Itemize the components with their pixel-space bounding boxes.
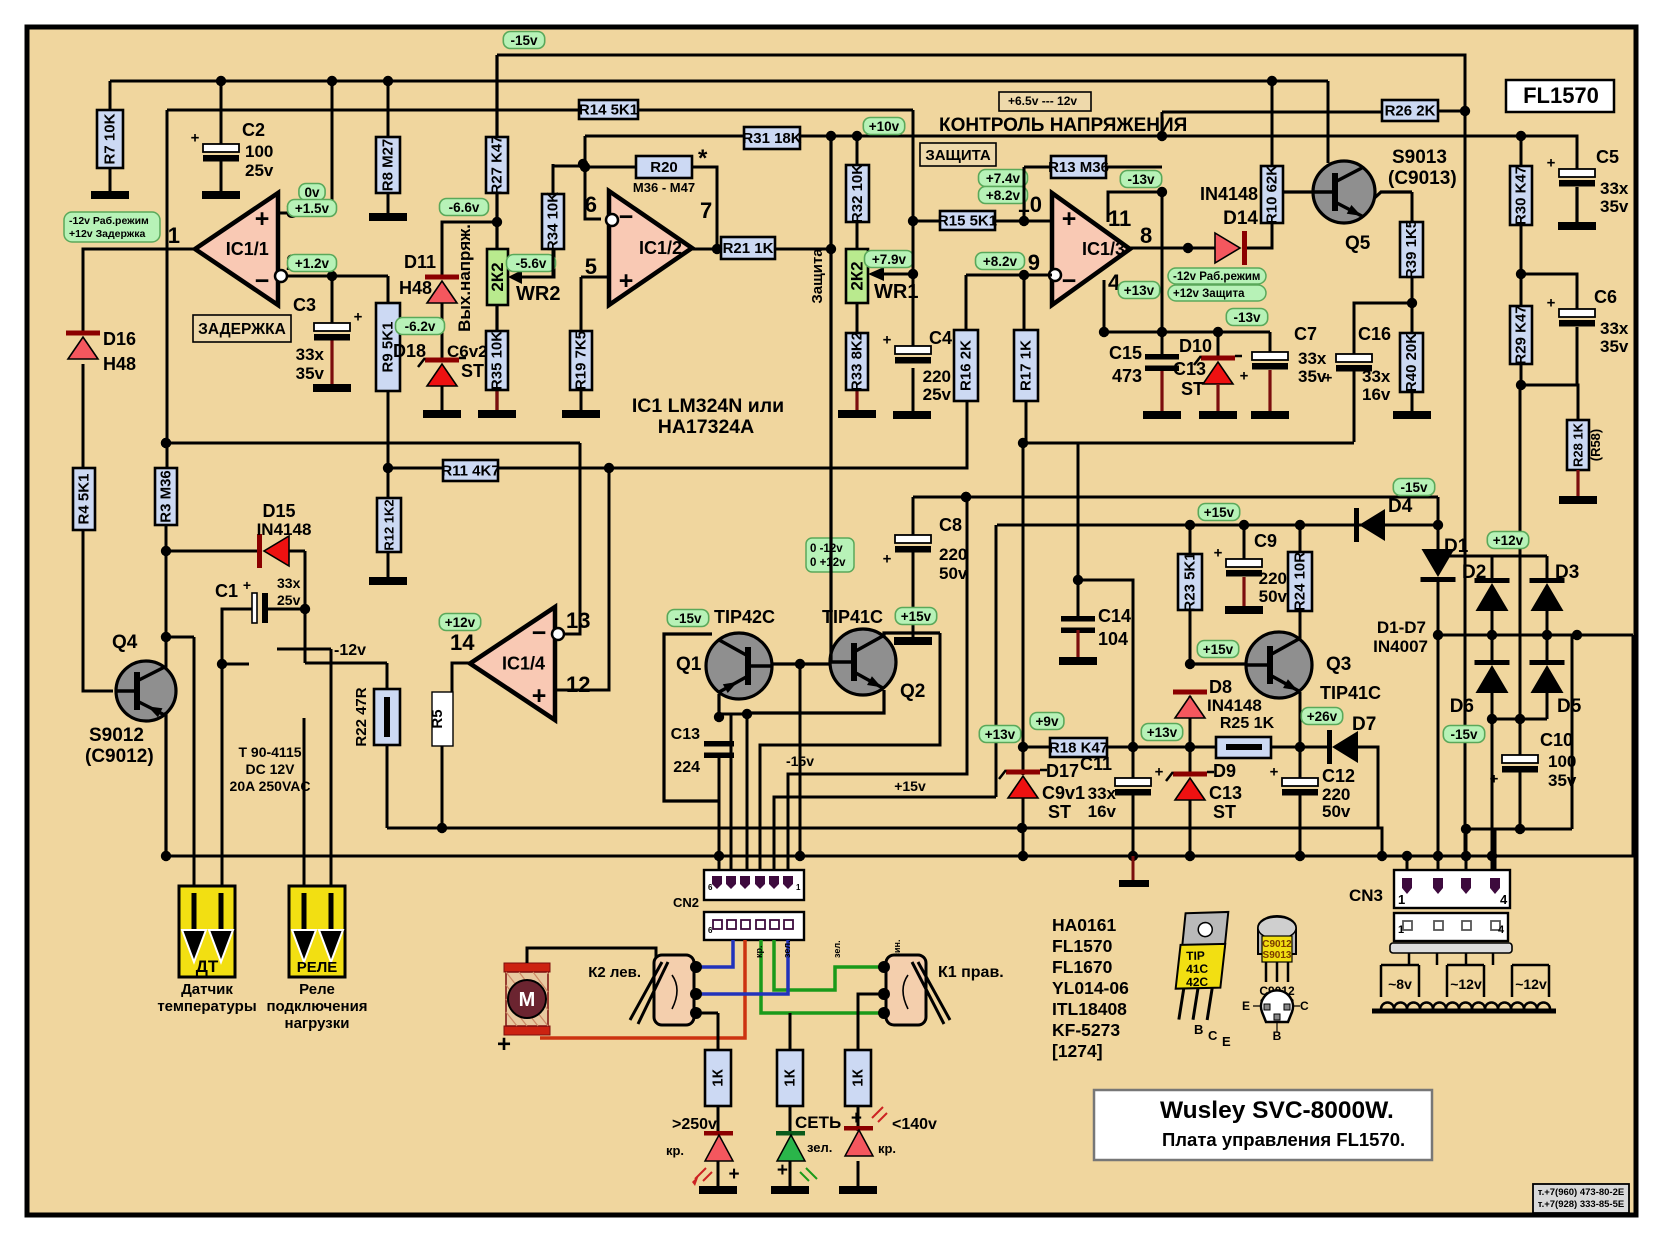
label part ITL18408 <box>1052 999 1127 1019</box>
wire bridge mid row <box>1438 609 1633 665</box>
svg-text:IC1/3: IC1/3 <box>1082 239 1125 259</box>
svg-text:-12v Раб.режим: -12v Раб.режим <box>69 215 149 227</box>
svg-text:+8.2v: +8.2v <box>986 188 1021 203</box>
wire x831 column <box>829 136 832 662</box>
svg-text:+12v Защита: +12v Защита <box>1173 288 1245 300</box>
ground C3 <box>313 384 351 392</box>
label D15 type <box>257 520 312 539</box>
label WR2 <box>516 283 560 305</box>
node -15v bridge <box>1443 726 1484 743</box>
junction -13v node <box>1157 131 1167 197</box>
resistor R39 <box>1400 220 1423 279</box>
svg-text:R25 1K: R25 1K <box>1220 715 1275 732</box>
svg-text:R26 2K: R26 2K <box>1385 103 1436 120</box>
svg-text:IC1/4: IC1/4 <box>502 654 545 674</box>
svg-text:R12 1K2: R12 1K2 <box>382 499 397 550</box>
label датчик2 <box>157 998 256 1015</box>
node -13v a <box>1120 171 1161 188</box>
svg-text:+15v: +15v <box>901 609 932 624</box>
svg-text:KF-5273: KF-5273 <box>1052 1020 1120 1040</box>
label D1-D7 <box>1377 618 1426 637</box>
resistor R21 <box>721 237 775 259</box>
svg-text:2К2: 2К2 <box>488 262 507 291</box>
node +10v <box>863 118 904 135</box>
wire Q2 emitter <box>747 690 884 713</box>
svg-text:C1: C1 <box>215 581 238 601</box>
junction C14 top <box>1073 575 1083 585</box>
diode D4 <box>1354 508 1385 542</box>
ground R12 <box>369 577 407 585</box>
label D16 <box>103 329 136 349</box>
label C14 value <box>1098 629 1128 649</box>
wire C7 stub <box>1268 370 1271 411</box>
junction H4 end <box>1516 131 1526 141</box>
svg-text:ДТ: ДТ <box>196 957 219 976</box>
svg-text:1: 1 <box>796 883 801 892</box>
capacitor C4 <box>883 332 931 364</box>
svg-text:+7.4v: +7.4v <box>986 171 1021 186</box>
ground led 1 <box>699 1186 737 1194</box>
diode D17 <box>999 770 1047 799</box>
svg-text:FL1570: FL1570 <box>1523 83 1599 108</box>
label D18 st <box>461 361 484 381</box>
resistor R33 <box>846 332 868 391</box>
svg-text:(C9012): (C9012) <box>85 746 154 767</box>
svg-text:+: + <box>255 205 270 233</box>
svg-text:C13: C13 <box>671 726 700 743</box>
label <140v <box>892 1116 937 1133</box>
svg-text:ST: ST <box>461 361 484 381</box>
capacitor C2 <box>191 130 239 162</box>
label C8 <box>939 515 962 535</box>
wire C9 stub <box>1242 577 1245 606</box>
label +6.5v-12v box <box>999 92 1091 111</box>
label IC1 LM324N <box>632 395 784 417</box>
label ЗАЩИТА box <box>920 143 996 166</box>
svg-text:S9013: S9013 <box>1263 950 1292 961</box>
resistor R11 <box>441 460 499 481</box>
wire led column 3 <box>857 1013 860 1186</box>
svg-text:-12v Раб.режим: -12v Раб.режим <box>1173 271 1260 283</box>
svg-text:R7 10K: R7 10K <box>102 113 119 164</box>
label Q2 <box>900 681 925 702</box>
svg-text:+: + <box>532 682 547 710</box>
svg-text:R5: R5 <box>429 709 446 728</box>
label D9 st <box>1213 802 1236 822</box>
svg-text:зел.: зел. <box>807 1140 832 1155</box>
svg-text:TIP41C: TIP41C <box>1320 683 1381 703</box>
svg-text:кр.: кр. <box>878 1141 896 1156</box>
label Q1 <box>676 654 702 675</box>
label C7 value <box>1298 349 1327 368</box>
wire blue2 <box>699 940 788 994</box>
svg-text:C10: C10 <box>1540 730 1573 750</box>
svg-text:220: 220 <box>923 367 951 386</box>
resistor R10 <box>1261 165 1283 224</box>
svg-text:R30 K47: R30 K47 <box>1513 166 1530 225</box>
op-amp IC1/1 <box>195 193 287 305</box>
label D9 <box>1213 761 1236 781</box>
svg-text:R27 K47: R27 K47 <box>489 135 506 194</box>
junction R3 <box>161 438 171 642</box>
diode D15 IN4148 <box>257 534 289 568</box>
ground D10 <box>1199 411 1237 419</box>
svg-text:R20: R20 <box>650 159 678 176</box>
label R20 star <box>698 145 708 172</box>
svg-text:СЕТЬ: СЕТЬ <box>795 1113 841 1132</box>
svg-text:ST: ST <box>1213 802 1236 822</box>
svg-text:2К2: 2К2 <box>848 261 867 290</box>
svg-text:D6: D6 <box>1450 696 1474 717</box>
node 0v <box>299 184 325 201</box>
wire K1 to 1K <box>858 994 884 1050</box>
wire Q4 emitter <box>164 712 167 856</box>
label T90 <box>238 744 301 760</box>
label Q4 <box>112 632 138 653</box>
svg-text:ST: ST <box>1048 802 1071 822</box>
junction -6.6v node <box>492 217 502 227</box>
svg-text:TIP42C: TIP42C <box>714 607 775 627</box>
transistor Q2 <box>830 629 896 695</box>
junction D4 row <box>1185 520 1305 530</box>
node +7.4v <box>979 170 1028 187</box>
wire C6 drop <box>1576 327 1579 385</box>
svg-text:~12v: ~12v <box>1450 976 1482 992</box>
resistor R19 <box>570 331 592 390</box>
svg-text:РЕЛЕ: РЕЛЕ <box>297 959 338 976</box>
capacitor C6 <box>1547 295 1595 327</box>
diode D16 H48 <box>66 331 100 360</box>
ground R19 <box>562 410 600 418</box>
label реле1 <box>299 981 335 998</box>
wire led column 2 <box>789 1013 792 1186</box>
svg-text:C12: C12 <box>1322 766 1355 786</box>
wire D15 row <box>166 551 387 689</box>
pin 9 <box>1028 250 1040 275</box>
label D11 <box>404 252 436 272</box>
label CN2 <box>673 895 699 910</box>
label C9 <box>1254 531 1277 551</box>
resistor R12 <box>377 498 401 552</box>
wire Q2 collector <box>884 633 940 637</box>
svg-text:+: + <box>1155 764 1164 781</box>
junction line497 <box>961 492 971 502</box>
wire -6.6v branch <box>442 222 497 277</box>
svg-text:D5: D5 <box>1557 696 1582 717</box>
svg-text:температуры: температуры <box>157 998 256 1015</box>
svg-text:13: 13 <box>566 608 590 633</box>
label реле3 <box>285 1015 350 1032</box>
svg-text:224: 224 <box>673 759 700 776</box>
svg-text:C6v2: C6v2 <box>447 342 488 361</box>
capacitor C10 <box>1490 755 1538 788</box>
svg-text:R8 M27: R8 M27 <box>380 139 397 192</box>
svg-text:-13v: -13v <box>1127 172 1155 187</box>
svg-text:50v: 50v <box>1322 802 1351 821</box>
svg-text:R31 18K: R31 18K <box>742 130 801 147</box>
resistor R7 <box>97 110 123 168</box>
pin 13 <box>566 608 590 633</box>
svg-text:16v: 16v <box>1362 385 1391 404</box>
wire D10 stub <box>1216 384 1219 411</box>
capacitor C16 <box>1324 354 1372 387</box>
junction out IC1/3 <box>1183 243 1193 253</box>
ground D18 <box>423 410 461 418</box>
label C15 <box>1109 343 1142 363</box>
svg-text:C4: C4 <box>929 328 952 348</box>
svg-text:R15 5K1: R15 5K1 <box>938 213 997 230</box>
wire R28 row <box>1521 385 1578 420</box>
svg-text:C: C <box>1208 1028 1218 1043</box>
wire bus856 <box>166 635 1633 856</box>
wire line443 <box>166 442 1354 445</box>
svg-text:+15v: +15v <box>1204 505 1235 520</box>
svg-text:+12v Задержка: +12v Задержка <box>69 228 145 240</box>
wire R5 link <box>452 663 470 692</box>
svg-text:т.+7(928) 333-85-5Е: т.+7(928) 333-85-5Е <box>1538 1199 1624 1210</box>
label S9012 <box>89 725 144 746</box>
svg-text:35v: 35v <box>1548 771 1577 790</box>
capacitor C13b <box>704 741 734 758</box>
svg-text:D11: D11 <box>404 252 436 272</box>
wire R20 link <box>585 167 717 249</box>
svg-text:6: 6 <box>585 192 597 217</box>
label C9 value2 <box>1259 587 1288 606</box>
wire C15 stub <box>1160 369 1163 411</box>
wire D16-R4 column <box>83 364 113 691</box>
resistor R17 <box>1014 330 1038 401</box>
label C4 value2 <box>923 385 952 404</box>
svg-text:-13v: -13v <box>1233 310 1261 325</box>
svg-text:IN4007: IN4007 <box>1373 637 1428 656</box>
junction Q3 base <box>1185 659 1195 669</box>
junction cn3 pins <box>1402 851 1412 861</box>
diode D5 <box>1530 660 1565 693</box>
pin 14 <box>450 630 475 655</box>
wire pin2 net <box>278 276 388 323</box>
junction R26 <box>1267 76 1470 116</box>
label C15 value <box>1112 366 1142 386</box>
wire pin4 drop <box>1103 280 1106 332</box>
svg-text:Q1: Q1 <box>676 654 702 675</box>
svg-text:+1.5v: +1.5v <box>295 201 330 216</box>
label T90c <box>230 778 311 794</box>
resistor 1K 3 <box>845 1050 871 1106</box>
svg-text:C9v1: C9v1 <box>1042 783 1085 803</box>
node 0-12v label <box>806 538 854 572</box>
diode D10 <box>1194 356 1242 385</box>
label CN3 <box>1349 886 1383 905</box>
junction bus856 <box>161 851 1387 861</box>
capacitor C11 <box>1115 764 1164 796</box>
wire bridge top row <box>1438 556 1547 583</box>
svg-text:D1: D1 <box>1444 536 1469 557</box>
ground C9 <box>1225 606 1263 614</box>
junction q1q2 <box>714 492 971 722</box>
svg-text:1: 1 <box>1398 892 1405 907</box>
label ЗАДЕРЖКА <box>193 315 291 342</box>
svg-text:+8.2v: +8.2v <box>983 254 1018 269</box>
svg-text:IN4148: IN4148 <box>257 520 312 539</box>
svg-text:R16 2K: R16 2K <box>958 340 975 391</box>
svg-text:<140v: <140v <box>892 1116 937 1133</box>
svg-text:+12v: +12v <box>1493 533 1524 548</box>
node +15v q2 <box>895 608 936 625</box>
svg-text:0 +12v: 0 +12v <box>810 557 846 569</box>
ground led 3 <box>839 1186 877 1194</box>
junction pin10 <box>1019 216 1029 226</box>
wire C2 column <box>220 81 223 191</box>
svg-text:100: 100 <box>245 142 273 161</box>
capacitor C3 <box>314 309 363 341</box>
svg-text:+: + <box>497 1031 511 1058</box>
node +9v <box>1030 713 1064 730</box>
wire R27 column <box>495 55 498 410</box>
switch K1 <box>878 955 950 1025</box>
ground C11b <box>1119 856 1149 887</box>
label зел <box>807 1140 832 1155</box>
ground C7 <box>1251 411 1289 419</box>
node +12v bridge <box>1487 532 1528 549</box>
svg-text:IC1/2: IC1/2 <box>639 238 682 258</box>
wire R7 column <box>109 81 112 191</box>
svg-text:42C: 42C <box>1186 975 1209 989</box>
wire line497 <box>913 497 1438 637</box>
svg-text:FL1670: FL1670 <box>1052 957 1113 977</box>
pin 2 <box>286 250 298 275</box>
svg-text:ITL18408: ITL18408 <box>1052 999 1127 1019</box>
label ~12v b <box>1515 976 1547 992</box>
resistor R5 <box>429 692 453 746</box>
svg-text:К1 прав.: К1 прав. <box>938 964 1004 981</box>
ground C2 <box>202 191 240 199</box>
svg-text:+: + <box>1214 545 1223 562</box>
junction R39-R40 <box>1407 298 1417 308</box>
label D8 type <box>1207 696 1262 715</box>
svg-text:50v: 50v <box>1259 587 1288 606</box>
svg-text:35v: 35v <box>1600 197 1629 216</box>
phone box <box>1533 1184 1629 1213</box>
label C11 <box>1080 754 1112 774</box>
ground led 2 <box>771 1186 809 1194</box>
junction D1 col <box>1433 520 1443 861</box>
svg-text:+: + <box>1324 370 1333 387</box>
svg-text:C6: C6 <box>1594 287 1617 307</box>
wire pin13 link <box>563 443 580 634</box>
wire cn2 r4 <box>760 633 940 872</box>
svg-text:зел.: зел. <box>782 940 792 958</box>
diode D18 C6v2 <box>418 358 466 387</box>
transistor Q5 <box>1313 161 1375 223</box>
wire cn2 r1 <box>718 753 721 872</box>
svg-text:-6.6v: -6.6v <box>449 200 480 215</box>
node -15v c8row <box>1393 479 1434 496</box>
svg-text:25v: 25v <box>245 161 274 180</box>
node +26v <box>1301 708 1342 725</box>
label C12 <box>1322 766 1355 786</box>
svg-text:YL014-06: YL014-06 <box>1052 978 1129 998</box>
svg-text:D18: D18 <box>393 341 426 361</box>
diode D14 IN4148 <box>1215 231 1247 265</box>
resistor R22 <box>353 687 400 746</box>
svg-text:104: 104 <box>1098 629 1128 649</box>
svg-text:C13: C13 <box>1173 359 1206 379</box>
label +15v small <box>894 778 926 794</box>
svg-text:−: − <box>532 619 547 647</box>
wire -15v top bus <box>497 55 1465 856</box>
svg-text:0 -12v: 0 -12v <box>810 543 843 555</box>
svg-text:HA17324A: HA17324A <box>658 416 754 438</box>
wire IC1/3 out <box>1130 223 1272 248</box>
resistor R28 <box>1567 420 1589 470</box>
svg-text:+15v: +15v <box>894 778 926 794</box>
label C4 <box>929 328 952 348</box>
led HL1 red <box>692 1131 740 1186</box>
capacitor C5 <box>1547 155 1595 187</box>
ground R35 <box>478 410 516 418</box>
junction out IC1/2 <box>712 244 836 254</box>
svg-text:(C9013): (C9013) <box>1388 168 1457 189</box>
svg-text:+10v: +10v <box>869 119 900 134</box>
svg-text:-6.2v: -6.2v <box>405 319 436 334</box>
wire D9 column <box>1189 719 1192 856</box>
svg-text:D16: D16 <box>103 329 136 349</box>
svg-text:Q3: Q3 <box>1326 654 1351 675</box>
capacitor C1 <box>243 577 268 623</box>
svg-text:35v: 35v <box>1298 367 1327 386</box>
label C7 value2 <box>1298 367 1327 386</box>
label C4 value <box>923 367 951 386</box>
svg-text:R33 8K2: R33 8K2 <box>849 332 866 391</box>
label D4 <box>1388 496 1413 517</box>
label R25 <box>1220 715 1275 732</box>
svg-text:КОНТРОЛЬ НАПРЯЖЕНИЯ: КОНТРОЛЬ НАПРЯЖЕНИЯ <box>939 115 1187 136</box>
label C3 value <box>296 345 325 364</box>
svg-text:R32 10K: R32 10K <box>849 164 866 223</box>
resistor R15 <box>938 211 997 230</box>
svg-text:1: 1 <box>168 223 180 248</box>
svg-text:8: 8 <box>1140 223 1152 248</box>
label ~12v a <box>1450 976 1482 992</box>
wire C12 column <box>1299 747 1302 856</box>
svg-text:D3: D3 <box>1555 562 1579 583</box>
wire pin12 link <box>555 468 609 690</box>
connector CN2 lower <box>704 912 804 940</box>
wire R32 column <box>856 136 859 333</box>
label K2 <box>588 964 641 981</box>
wire D17 column <box>1022 443 1025 856</box>
svg-text:25v: 25v <box>277 592 301 608</box>
wire R33 stub <box>855 390 858 410</box>
junction R30-R29 <box>1516 269 1526 390</box>
label C10 <box>1540 730 1573 750</box>
svg-text:+: + <box>1490 771 1499 788</box>
svg-text:+: + <box>191 130 200 147</box>
svg-text:C8: C8 <box>939 515 962 535</box>
wire cn2 r5 <box>788 497 967 872</box>
svg-text:D1-D7: D1-D7 <box>1377 618 1426 637</box>
svg-text:кр.: кр. <box>754 945 764 958</box>
node +12v ic14 <box>439 614 480 631</box>
svg-text:D10: D10 <box>1179 336 1212 356</box>
diode D7 <box>1327 730 1358 764</box>
label C13b <box>671 726 700 743</box>
svg-text:−: − <box>619 203 634 231</box>
label C1 value2 <box>277 592 301 608</box>
capacitor C15 <box>1145 354 1179 371</box>
wire cn2 r3 <box>746 714 749 872</box>
svg-text:33x: 33x <box>1298 349 1327 368</box>
